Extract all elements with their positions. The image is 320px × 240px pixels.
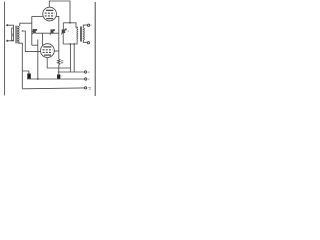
- V2 grid dashes row1: [43, 49, 53, 51]
- wire A minus bus: [22, 87, 84, 90]
- V1 grid dashes row2: [45, 15, 55, 17]
- label R1: [61, 61, 63, 63]
- terminal circle A minus: [85, 87, 87, 89]
- C1 plates: [33, 29, 35, 33]
- wire parallel drop 1: [69, 44, 71, 72]
- wire branch to battery blob: [22, 71, 29, 74]
- wire grid to transformer secondary: [20, 23, 32, 26]
- V2 cathode bar: [44, 54, 51, 56]
- label tick: [88, 71, 90, 73]
- wire V1 screen lead right with long drop: [56, 16, 58, 59]
- node input dot top: [6, 24, 8, 26]
- wire heater branch: [22, 31, 40, 52]
- label c2: [68, 30, 70, 32]
- wire grid corner to filament stub: [32, 44, 38, 46]
- label near blob: [61, 75, 62, 77]
- wire right bus: [94, 2, 96, 96]
- junction dot left: [70, 43, 72, 45]
- wire B plus bus: [58, 71, 85, 73]
- battery blob right: [57, 74, 60, 78]
- variable capacitor C1 stub: [32, 30, 34, 32]
- label P mark: [12, 33, 14, 37]
- junction dot right: [73, 43, 75, 45]
- variable capacitor C3 plates: [51, 29, 53, 33]
- C1 plate core fill: [33, 30, 36, 33]
- transformer T1 secondary coil: [18, 26, 19, 43]
- wire resistor bottom: [58, 65, 60, 75]
- label tick out top: [91, 24, 92, 26]
- wire V1 grid lead left: [32, 15, 43, 17]
- wire parallel drop 2: [73, 44, 75, 72]
- C2 bottom lead: [62, 33, 64, 44]
- wire T2 secondary bottom to terminal: [83, 40, 87, 42]
- triode V2 envelope: [41, 44, 55, 58]
- C2 plates: [62, 30, 66, 32]
- wire choke net horizontal: [63, 40, 77, 44]
- V1 grid dashes row1: [45, 12, 55, 14]
- C1 arrow: [32, 29, 37, 34]
- C2 plate core fill: [62, 30, 65, 33]
- wire filament stub and drop: [37, 40, 39, 80]
- wire dot to primary top: [7, 25, 13, 28]
- wire V2 plate lead right: [54, 50, 59, 52]
- transformer T1 primary coil: [12, 28, 14, 40]
- transformer T2 core: [81, 27, 82, 42]
- transformer T1 core: [16, 26, 17, 44]
- terminal circle out bottom: [87, 42, 89, 44]
- V2 grid dashes row2: [43, 51, 53, 53]
- wire secondary bottom to lower corner: [18, 43, 22, 89]
- V2 plate bar: [43, 46, 51, 48]
- wire grid vertical drop: [31, 16, 33, 45]
- label tick near terminal: [88, 78, 89, 80]
- V1 cathode bar: [46, 18, 53, 20]
- junction dot filament bus: [37, 78, 39, 80]
- variable capacitor C2 top lead: [62, 23, 64, 30]
- terminal circle out top: [88, 24, 90, 26]
- V1 plate bar: [46, 9, 53, 11]
- triode V1 envelope: [43, 7, 57, 21]
- wire V1 plate lead up over to right: [49, 1, 70, 23]
- wire plate net horizontal: [63, 23, 77, 27]
- C3 arrow: [50, 30, 55, 35]
- terminal circle A plus: [85, 78, 87, 80]
- junction dot plate node: [69, 22, 71, 24]
- transformer T2 primary coil: [76, 27, 79, 40]
- wire primary bottom lead: [7, 39, 13, 42]
- wire tuned net: [35, 32, 58, 34]
- node input dot bottom: [6, 40, 8, 42]
- C3 plate core fill: [51, 30, 53, 33]
- junction dot heater tap: [22, 30, 23, 31]
- wire V2 cathode down and right: [47, 58, 70, 69]
- terminal circle B plus: [85, 71, 87, 73]
- label near terminal: [88, 87, 91, 89]
- wire T2 secondary top to terminal: [83, 25, 87, 28]
- resistor R1 zigzag: [58, 59, 61, 65]
- wire left antenna bus: [4, 2, 6, 96]
- battery blob left: [27, 74, 31, 79]
- transformer T2 secondary coil: [83, 28, 84, 41]
- wire V2 grid lead: [42, 33, 44, 45]
- wire A plus bus: [27, 78, 85, 80]
- C2 arrow: [61, 29, 66, 35]
